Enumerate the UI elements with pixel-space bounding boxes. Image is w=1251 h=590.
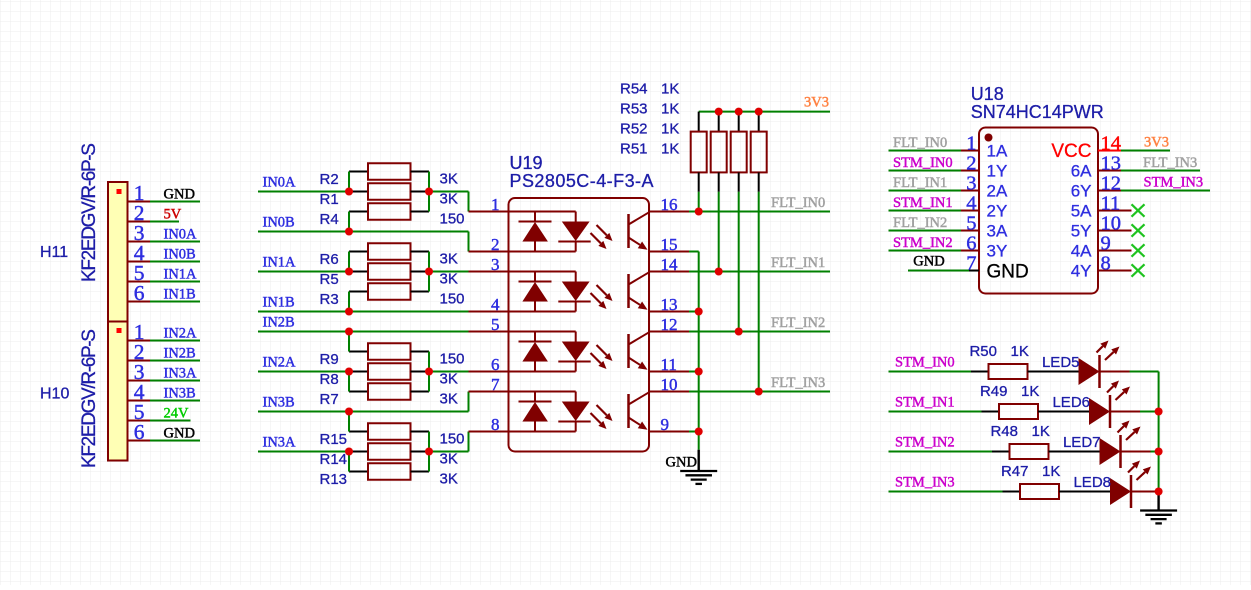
U19 channel 3 input LED pair bbox=[510, 332, 613, 372]
H11 pin 5 IN1A bbox=[128, 261, 201, 285]
resistor R8 bbox=[349, 363, 429, 380]
svg-text:9: 9 bbox=[1101, 233, 1111, 255]
svg-text:IN3B: IN3B bbox=[164, 386, 196, 402]
U19 pin 10 bbox=[649, 375, 689, 394]
resistor R52 bbox=[731, 112, 747, 192]
svg-text:11: 11 bbox=[1101, 193, 1121, 215]
U18 pin 13 wire FLT_IN3 bbox=[1098, 153, 1200, 175]
svg-text:H11: H11 bbox=[40, 244, 68, 261]
svg-text:STM_IN3: STM_IN3 bbox=[895, 475, 955, 491]
svg-text:FLT_IN0: FLT_IN0 bbox=[771, 195, 825, 211]
svg-text:3K: 3K bbox=[440, 371, 458, 388]
svg-text:3: 3 bbox=[491, 255, 500, 274]
svg-text:R14: R14 bbox=[320, 451, 348, 468]
svg-text:KF2EDGV/R-6P-S: KF2EDGV/R-6P-S bbox=[79, 143, 100, 282]
svg-text:IN3B: IN3B bbox=[263, 395, 295, 411]
svg-text:R5: R5 bbox=[320, 271, 339, 288]
svg-text:R7: R7 bbox=[320, 391, 339, 408]
LED cathode bus wire bbox=[1158, 372, 1160, 492]
svg-text:STM_IN0: STM_IN0 bbox=[893, 155, 953, 171]
svg-text:14: 14 bbox=[661, 255, 679, 274]
svg-text:3K: 3K bbox=[440, 471, 458, 488]
svg-text:R47: R47 bbox=[1001, 463, 1029, 480]
wire LED5 cathode to bus bbox=[1100, 371, 1159, 373]
wire resistor group4 output to U19 pin 8 bbox=[429, 432, 469, 452]
resistor R9 bbox=[349, 343, 429, 360]
svg-text:IN1A: IN1A bbox=[164, 267, 198, 283]
svg-text:LED7: LED7 bbox=[1063, 434, 1101, 451]
U18 pin 4 STM_IN1 bbox=[889, 193, 980, 215]
svg-text:FLT_IN0: FLT_IN0 bbox=[893, 135, 947, 151]
svg-text:3V3: 3V3 bbox=[804, 95, 829, 111]
junction bbox=[345, 228, 353, 236]
junction bbox=[345, 368, 353, 376]
svg-text:IN2A: IN2A bbox=[263, 355, 297, 371]
svg-text:IN0B: IN0B bbox=[164, 247, 196, 263]
svg-text:STM_IN2: STM_IN2 bbox=[893, 235, 953, 251]
net label wire FLT_IN3 bbox=[689, 375, 830, 392]
svg-text:R49: R49 bbox=[980, 383, 1008, 400]
U18 pin 6 STM_IN2 bbox=[889, 233, 980, 255]
svg-text:1K: 1K bbox=[661, 81, 679, 98]
U18 pin 2 STM_IN0 bbox=[889, 153, 980, 175]
svg-text:1K: 1K bbox=[1011, 343, 1029, 360]
group 2 right tie wire bbox=[428, 252, 430, 292]
wire resistor group3 output to U19 pin 6 bbox=[429, 371, 469, 373]
net label wire IN3B bbox=[258, 392, 469, 412]
net label wire IN0B bbox=[258, 215, 469, 252]
junction bbox=[695, 208, 703, 216]
junction bbox=[425, 268, 433, 276]
net label wire IN3A bbox=[258, 435, 349, 452]
U19 channel 1 phototransistor bbox=[629, 212, 650, 249]
svg-text:8: 8 bbox=[491, 415, 500, 434]
svg-text:6: 6 bbox=[966, 233, 976, 255]
svg-text:H10: H10 bbox=[40, 386, 69, 403]
wire LED6 cathode to bus bbox=[1110, 411, 1159, 413]
resistor R49 bbox=[982, 404, 1090, 419]
pull-up resistor wire bbox=[698, 192, 700, 212]
svg-text:5Y: 5Y bbox=[1071, 222, 1092, 241]
svg-text:5: 5 bbox=[966, 213, 976, 235]
junction bbox=[1155, 408, 1163, 416]
3V3 power rail wire bbox=[699, 111, 830, 113]
resistor R3 bbox=[349, 283, 429, 300]
svg-text:IN1B: IN1B bbox=[263, 295, 295, 311]
svg-text:150: 150 bbox=[440, 431, 465, 448]
U19 pin 4 bbox=[469, 295, 509, 314]
svg-text:R52: R52 bbox=[620, 121, 648, 138]
svg-text:LED6: LED6 bbox=[1052, 394, 1090, 411]
svg-text:150: 150 bbox=[440, 351, 465, 368]
svg-text:FLT_IN1: FLT_IN1 bbox=[771, 255, 825, 271]
net label wire IN2B bbox=[258, 315, 469, 332]
svg-text:8: 8 bbox=[1101, 253, 1111, 275]
svg-text:2A: 2A bbox=[987, 182, 1008, 201]
svg-text:3K: 3K bbox=[440, 391, 458, 408]
U19 channel 4 phototransistor bbox=[629, 392, 650, 429]
svg-text:1K: 1K bbox=[661, 121, 679, 138]
svg-text:IN1B: IN1B bbox=[164, 287, 196, 303]
U19 pin 9 bbox=[649, 415, 689, 434]
svg-text:IN2B: IN2B bbox=[164, 346, 196, 362]
H10 pin 2 IN2B bbox=[128, 340, 201, 364]
U18 pin 3 FLT_IN1 bbox=[889, 173, 980, 195]
LED LED8 bbox=[1110, 461, 1151, 509]
svg-text:IN0A: IN0A bbox=[164, 227, 198, 243]
svg-text:GND: GND bbox=[987, 262, 1029, 283]
svg-text:IN0A: IN0A bbox=[263, 175, 297, 191]
svg-text:2: 2 bbox=[491, 235, 500, 254]
junction bbox=[345, 328, 353, 336]
svg-text:1K: 1K bbox=[1042, 463, 1060, 480]
svg-text:STM_IN1: STM_IN1 bbox=[895, 395, 955, 411]
svg-text:1K: 1K bbox=[661, 141, 679, 158]
svg-text:14: 14 bbox=[1101, 133, 1122, 155]
junction bbox=[715, 268, 723, 276]
svg-text:FLT_IN1: FLT_IN1 bbox=[893, 175, 947, 191]
svg-text:13: 13 bbox=[661, 295, 678, 314]
pull-up resistor wire bbox=[718, 192, 720, 272]
LED LED6 bbox=[1089, 381, 1130, 429]
svg-text:2: 2 bbox=[966, 153, 976, 175]
resistor R51 bbox=[751, 112, 767, 192]
svg-text:4: 4 bbox=[491, 295, 500, 314]
junction bbox=[735, 108, 743, 116]
U19 channel 4 input LED pair bbox=[510, 392, 613, 432]
svg-text:IN3A: IN3A bbox=[263, 435, 297, 451]
svg-text:KF2EDGV/R-6P-S: KF2EDGV/R-6P-S bbox=[79, 329, 100, 468]
resistor R50 bbox=[971, 364, 1079, 379]
resistor R14 bbox=[349, 443, 429, 460]
junction bbox=[735, 328, 743, 336]
svg-text:FLT_IN2: FLT_IN2 bbox=[893, 215, 947, 231]
resistor R1 bbox=[349, 183, 429, 200]
junction bbox=[345, 308, 353, 316]
junction bbox=[755, 108, 763, 116]
U19 pin 8 bbox=[469, 415, 509, 434]
svg-text:16: 16 bbox=[661, 195, 678, 214]
H10 pin 1 IN2A bbox=[128, 320, 201, 344]
group 4 right tie wire bbox=[428, 432, 430, 472]
svg-text:3A: 3A bbox=[987, 222, 1008, 241]
svg-text:6: 6 bbox=[134, 281, 145, 305]
group 3 left tie wires bbox=[348, 332, 350, 392]
junction bbox=[755, 388, 763, 396]
U18 pin 12 wire STM_IN3 bbox=[1098, 173, 1210, 195]
svg-text:IN0B: IN0B bbox=[263, 215, 295, 231]
svg-text:U18: U18 bbox=[971, 84, 1004, 104]
resistor R5 bbox=[349, 263, 429, 280]
U19 pin 7 bbox=[469, 375, 509, 394]
svg-text:LED8: LED8 bbox=[1073, 474, 1111, 491]
junction bbox=[695, 368, 703, 376]
junction bbox=[715, 108, 723, 116]
svg-text:SN74HC14PWR: SN74HC14PWR bbox=[971, 102, 1104, 122]
U18 pin 14 VCC wire to 3V3 bbox=[1098, 133, 1170, 155]
svg-text:3K: 3K bbox=[440, 271, 458, 288]
H10 pin 5 24V bbox=[128, 400, 191, 424]
svg-text:R3: R3 bbox=[320, 291, 339, 308]
connector H11 KF2EDGV/R-6P-S body bbox=[108, 182, 128, 322]
wire resistor group1 output to U19 pin 1 bbox=[429, 192, 469, 212]
svg-text:STM_IN3: STM_IN3 bbox=[1144, 175, 1204, 191]
svg-text:FLT_IN2: FLT_IN2 bbox=[771, 315, 825, 331]
op-amp U19 PS2805C-4-F3-A body bbox=[509, 198, 650, 452]
svg-text:R50: R50 bbox=[969, 343, 997, 360]
svg-text:9: 9 bbox=[661, 415, 670, 434]
U19 pin 13 bbox=[649, 295, 689, 314]
svg-text:R4: R4 bbox=[320, 211, 339, 228]
U19 pin 1 bbox=[469, 195, 509, 214]
svg-text:4Y: 4Y bbox=[1071, 262, 1092, 281]
pull-up resistor wire bbox=[738, 192, 740, 332]
svg-text:R9: R9 bbox=[320, 351, 339, 368]
IC U18 SN74HC14PWR body bbox=[979, 128, 1098, 294]
svg-text:4A: 4A bbox=[1071, 242, 1092, 261]
H11 pin 1 GND bbox=[128, 181, 201, 205]
U19 channel 1 input LED pair bbox=[510, 212, 613, 252]
U19 channel 3 phototransistor bbox=[629, 332, 650, 369]
H11 pin 6 IN1B bbox=[128, 281, 201, 305]
net label wire STM_IN3 bbox=[889, 475, 1003, 492]
svg-text:1: 1 bbox=[966, 133, 976, 155]
resistor R48 bbox=[992, 444, 1100, 459]
svg-text:3K: 3K bbox=[440, 451, 458, 468]
U19 pin 3 bbox=[469, 255, 509, 274]
svg-text:1Y: 1Y bbox=[987, 162, 1008, 181]
svg-text:1: 1 bbox=[491, 195, 500, 214]
wire LED7 cathode to bus bbox=[1121, 451, 1159, 453]
svg-text:IN3A: IN3A bbox=[164, 366, 198, 382]
U19 pin 12 bbox=[649, 315, 689, 334]
junction bbox=[1155, 448, 1163, 456]
svg-text:3K: 3K bbox=[440, 171, 458, 188]
svg-text:STM_IN2: STM_IN2 bbox=[895, 435, 955, 451]
svg-text:VCC: VCC bbox=[1051, 141, 1091, 162]
svg-text:6Y: 6Y bbox=[1071, 182, 1092, 201]
H10 pin 6 GND bbox=[128, 420, 201, 444]
net label wire STM_IN2 bbox=[889, 435, 993, 452]
svg-text:3V3: 3V3 bbox=[1144, 135, 1169, 151]
svg-text:3K: 3K bbox=[440, 191, 458, 208]
junction bbox=[425, 368, 433, 376]
resistor R6 bbox=[349, 243, 429, 260]
group 1 left tie wires bbox=[348, 172, 350, 232]
junction bbox=[345, 268, 353, 276]
svg-text:13: 13 bbox=[1101, 153, 1122, 175]
svg-text:150: 150 bbox=[440, 211, 465, 228]
resistor R54 bbox=[691, 112, 707, 192]
net label wire IN0A bbox=[258, 175, 349, 192]
U18 pin 9 no-connect bbox=[1098, 233, 1145, 257]
net label wire IN1B bbox=[258, 295, 469, 312]
svg-text:15: 15 bbox=[661, 235, 678, 254]
group 4 left tie wires bbox=[348, 412, 350, 472]
svg-text:R54: R54 bbox=[620, 81, 648, 98]
U19 pin 5 bbox=[469, 315, 509, 334]
svg-text:7: 7 bbox=[966, 253, 976, 275]
svg-text:GND: GND bbox=[913, 254, 944, 270]
svg-text:R2: R2 bbox=[320, 171, 339, 188]
H11 pin 2 5V bbox=[128, 201, 182, 225]
ground bbox=[1140, 492, 1177, 524]
resistor R47 bbox=[1003, 484, 1111, 499]
resistor R53 bbox=[711, 112, 727, 192]
svg-text:6: 6 bbox=[491, 355, 500, 374]
svg-text:R48: R48 bbox=[990, 423, 1018, 440]
H11 pin 3 IN0A bbox=[128, 221, 201, 245]
svg-text:R51: R51 bbox=[620, 141, 648, 158]
junction bbox=[1155, 488, 1163, 496]
U19 pin 6 bbox=[469, 355, 509, 374]
group 1 right tie wire bbox=[428, 172, 430, 212]
connector H10 KF2EDGV/R-6P-S body bbox=[108, 322, 128, 461]
svg-text:IN1A: IN1A bbox=[263, 255, 297, 271]
junction bbox=[345, 448, 353, 456]
U19 pin 16 bbox=[649, 195, 689, 214]
svg-text:10: 10 bbox=[661, 375, 678, 394]
U19 pin 2 bbox=[469, 235, 509, 254]
LED LED5 bbox=[1079, 341, 1120, 389]
svg-text:R1: R1 bbox=[320, 191, 339, 208]
wire resistor group2 output to U19 pin 3 bbox=[429, 271, 469, 273]
svg-text:FLT_IN3: FLT_IN3 bbox=[771, 375, 825, 391]
junction bbox=[345, 188, 353, 196]
svg-text:3: 3 bbox=[966, 173, 976, 195]
net label wire FLT_IN2 bbox=[689, 315, 830, 332]
svg-text:1K: 1K bbox=[1032, 423, 1050, 440]
H10 pin 4 IN3B bbox=[128, 380, 201, 404]
H11 pin 4 IN0B bbox=[128, 241, 201, 265]
resistor R2 bbox=[349, 163, 429, 180]
svg-text:R8: R8 bbox=[320, 371, 339, 388]
svg-text:IN2B: IN2B bbox=[263, 315, 295, 331]
svg-text:IN2A: IN2A bbox=[164, 326, 198, 342]
U18 pin 11 no-connect bbox=[1098, 193, 1145, 217]
junction bbox=[695, 428, 703, 436]
svg-text:10: 10 bbox=[1101, 213, 1122, 235]
resistor R7 bbox=[349, 383, 429, 400]
svg-text:12: 12 bbox=[661, 315, 678, 334]
svg-text:1K: 1K bbox=[1021, 383, 1039, 400]
svg-text:STM_IN1: STM_IN1 bbox=[893, 195, 953, 211]
svg-text:U19: U19 bbox=[510, 153, 543, 173]
net label wire IN2A bbox=[258, 355, 349, 372]
svg-text:150: 150 bbox=[440, 291, 465, 308]
pull-up resistor wire bbox=[758, 192, 760, 392]
junction bbox=[695, 308, 703, 316]
svg-text:1A: 1A bbox=[987, 142, 1008, 161]
svg-text:5: 5 bbox=[491, 315, 500, 334]
resistor R15 bbox=[349, 423, 429, 440]
U19 channel 2 input LED pair bbox=[510, 272, 613, 312]
svg-text:R6: R6 bbox=[320, 251, 339, 268]
svg-text:GND: GND bbox=[666, 455, 697, 471]
svg-text:STM_IN0: STM_IN0 bbox=[895, 355, 955, 371]
junction bbox=[345, 408, 353, 416]
svg-text:3Y: 3Y bbox=[987, 242, 1008, 261]
svg-text:R15: R15 bbox=[320, 431, 348, 448]
group 2 left tie wires bbox=[348, 252, 350, 312]
U19 pin 11 bbox=[649, 355, 689, 374]
GND bus wire bbox=[689, 252, 699, 450]
net label wire IN1A bbox=[258, 255, 349, 272]
svg-text:6: 6 bbox=[134, 420, 145, 444]
svg-text:24V: 24V bbox=[164, 406, 190, 422]
U18 pin 8 no-connect bbox=[1098, 253, 1145, 277]
svg-text:GND: GND bbox=[164, 426, 195, 442]
H10 pin 3 IN3A bbox=[128, 360, 201, 384]
net label wire FLT_IN1 bbox=[689, 255, 830, 272]
junction bbox=[425, 448, 433, 456]
ground bbox=[666, 450, 718, 484]
svg-text:12: 12 bbox=[1101, 173, 1122, 195]
U18 pin 10 no-connect bbox=[1098, 213, 1145, 237]
svg-text:3K: 3K bbox=[440, 251, 458, 268]
U19 pin 15 bbox=[649, 235, 689, 254]
svg-text:PS2805C-4-F3-A: PS2805C-4-F3-A bbox=[510, 171, 654, 191]
svg-text:1K: 1K bbox=[661, 101, 679, 118]
svg-text:4: 4 bbox=[966, 193, 976, 215]
svg-text:6A: 6A bbox=[1071, 162, 1092, 181]
resistor R13 bbox=[349, 463, 429, 480]
U18 pin 7 GND bbox=[908, 253, 979, 275]
net label wire FLT_IN0 bbox=[689, 195, 830, 212]
svg-text:5V: 5V bbox=[164, 207, 182, 223]
svg-text:LED5: LED5 bbox=[1042, 354, 1080, 371]
LED LED7 bbox=[1100, 421, 1141, 469]
group 3 right tie wire bbox=[428, 352, 430, 392]
svg-text:R53: R53 bbox=[620, 101, 648, 118]
wire LED8 cathode to bus bbox=[1131, 491, 1159, 493]
svg-text:7: 7 bbox=[491, 375, 500, 394]
svg-text:FLT_IN3: FLT_IN3 bbox=[1143, 155, 1197, 171]
net label wire STM_IN0 bbox=[889, 355, 972, 372]
svg-text:R13: R13 bbox=[320, 471, 348, 488]
net label wire STM_IN1 bbox=[889, 395, 982, 412]
U18 pin 1 FLT_IN0 bbox=[889, 133, 980, 155]
svg-text:11: 11 bbox=[661, 355, 677, 374]
svg-text:2Y: 2Y bbox=[987, 202, 1008, 221]
junction bbox=[425, 188, 433, 196]
U19 channel 2 phototransistor bbox=[629, 272, 650, 309]
svg-text:5A: 5A bbox=[1071, 202, 1092, 221]
resistor R4 bbox=[349, 203, 429, 220]
U19 pin 14 bbox=[649, 255, 689, 274]
U18 pin 5 FLT_IN2 bbox=[889, 213, 980, 235]
svg-text:GND: GND bbox=[164, 187, 195, 203]
